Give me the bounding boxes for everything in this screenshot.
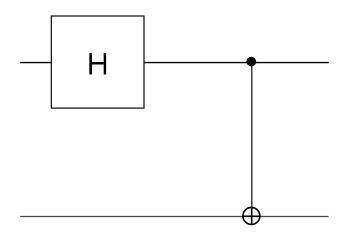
wire: control vertical line <box>251 62 253 225</box>
wire: qubit 0 left segment <box>20 62 51 64</box>
gate H box <box>51 16 144 108</box>
CNOT target cross vertical <box>251 207 253 224</box>
CNOT target circle <box>243 207 260 224</box>
wire: qubit 0 right segment <box>144 62 329 64</box>
control dot (CNOT control) <box>246 57 256 67</box>
wire: qubit 1 <box>20 216 328 218</box>
CNOT target cross horizontal <box>243 215 260 217</box>
gate H label <box>89 53 106 75</box>
